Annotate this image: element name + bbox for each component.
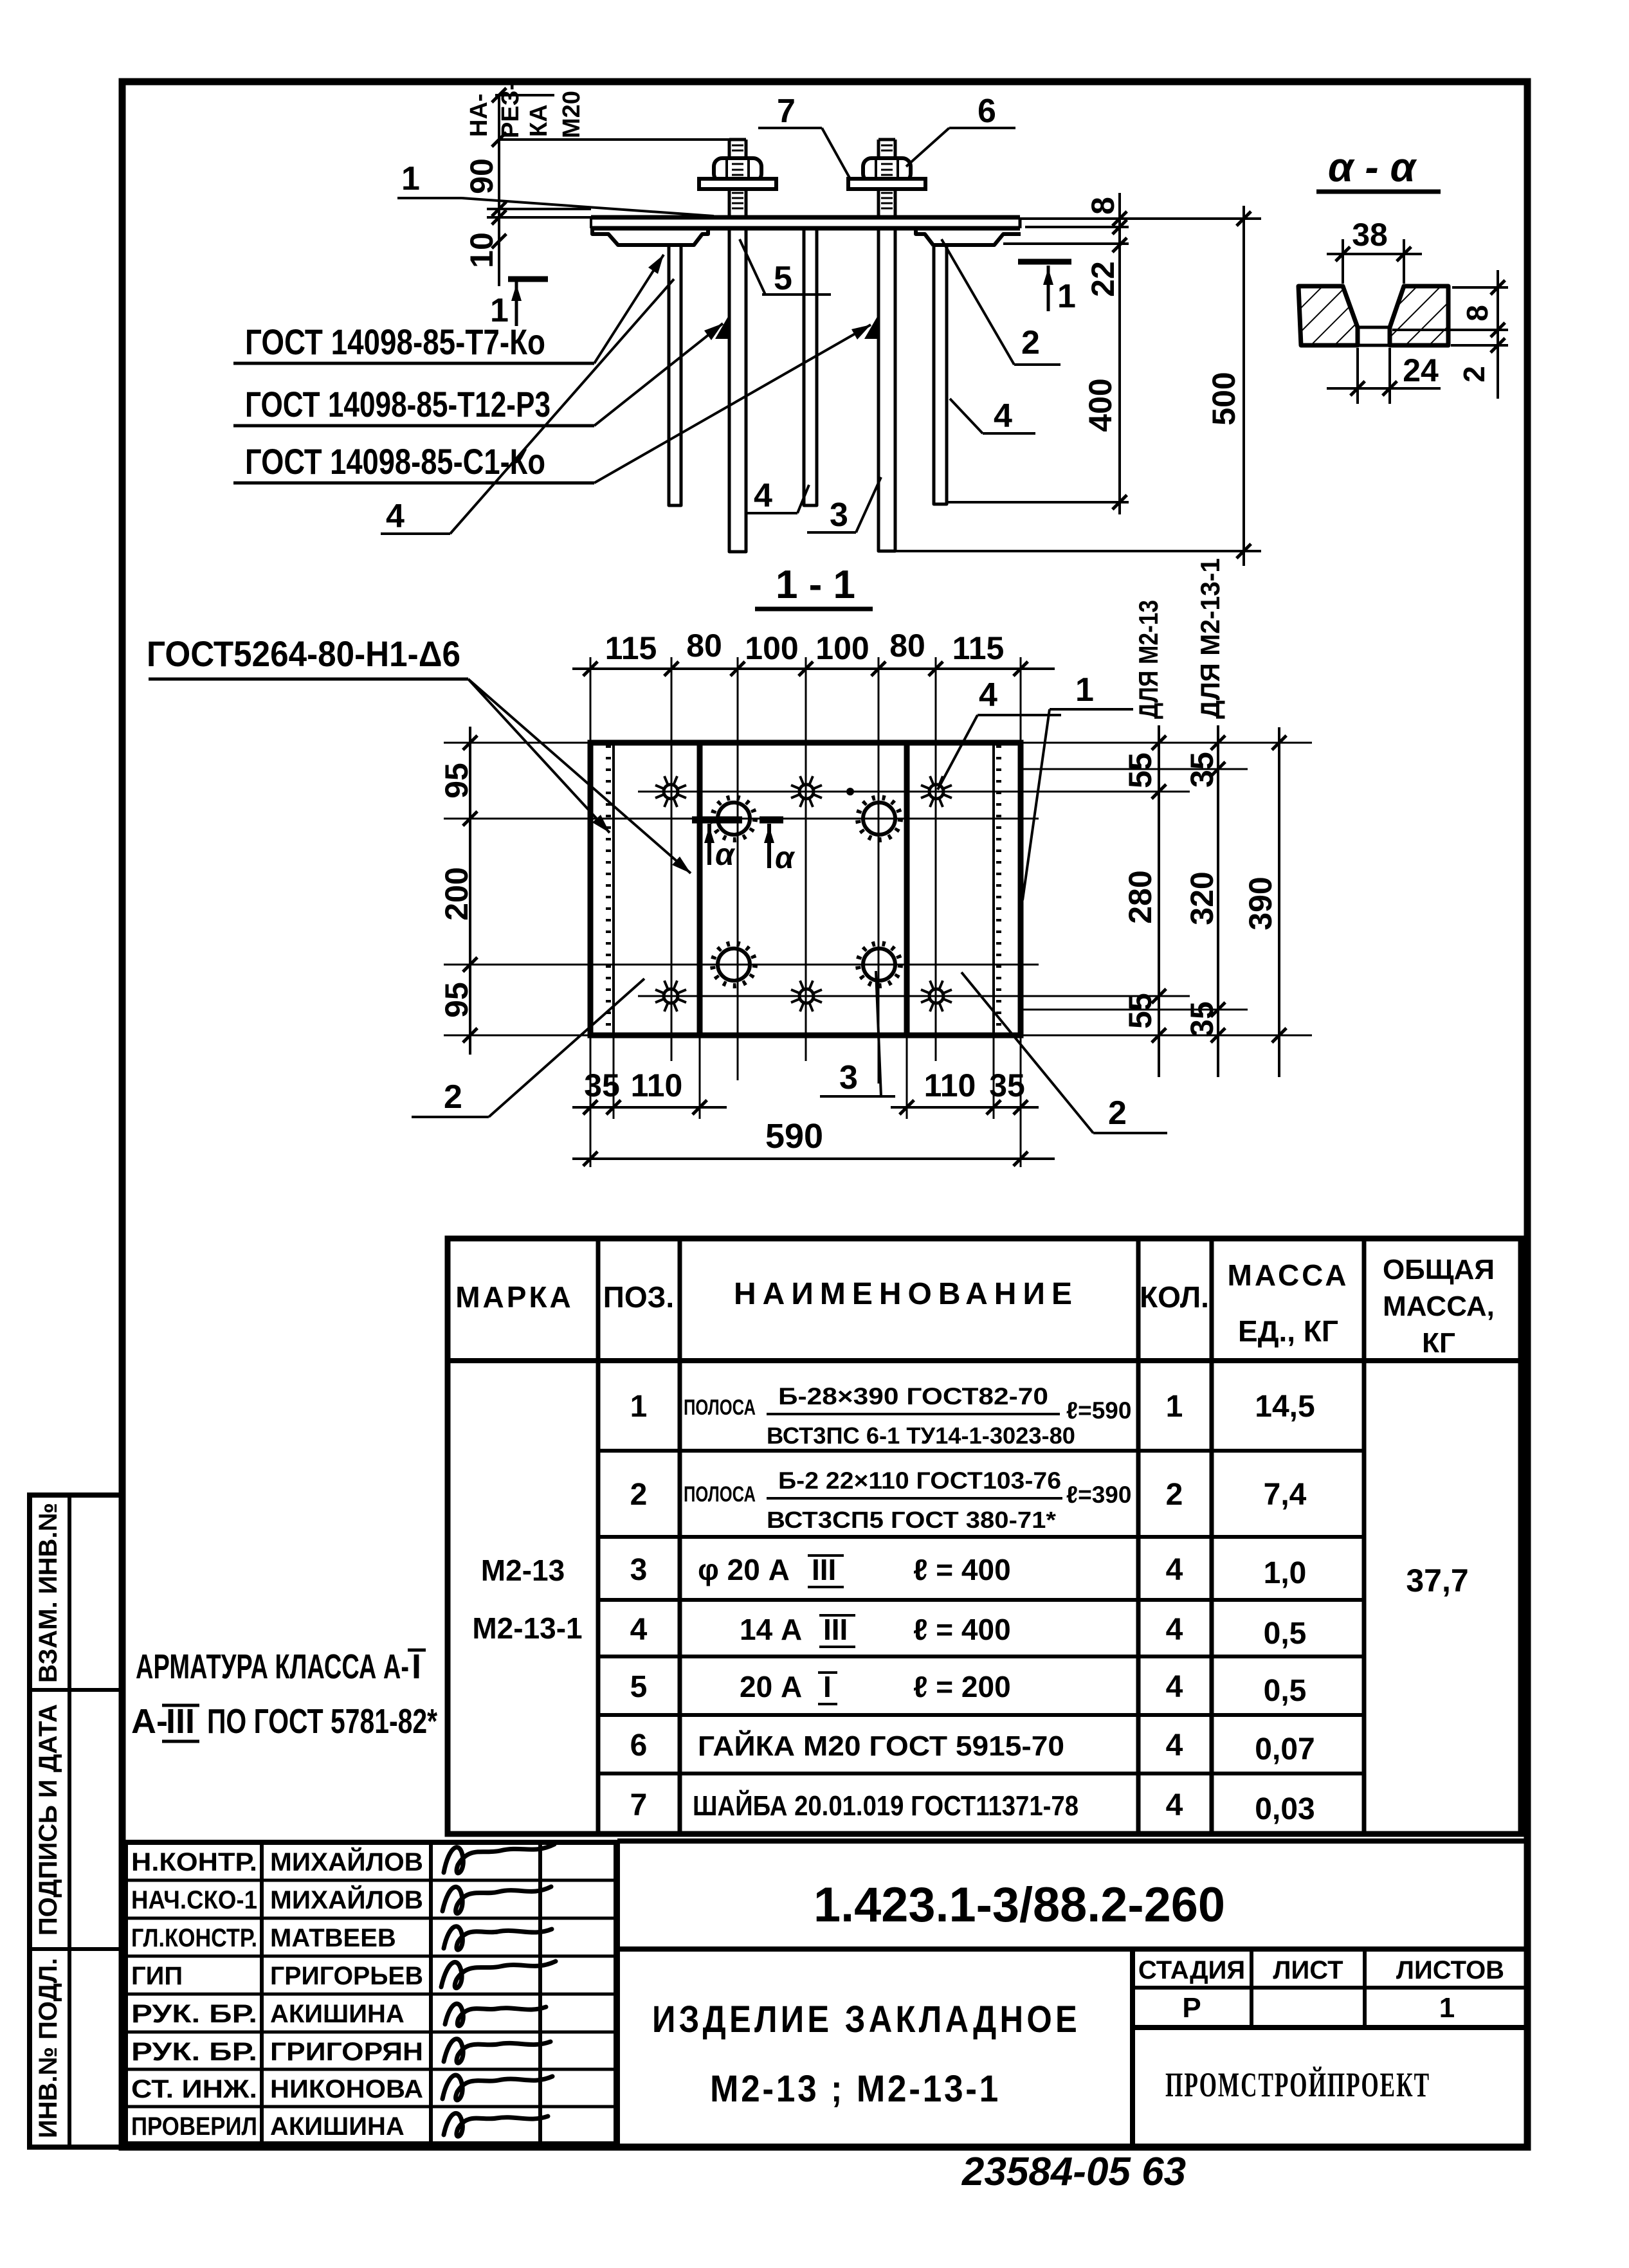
svg-text:35: 35 xyxy=(1184,1001,1220,1037)
anchor rod item4 right xyxy=(934,247,947,504)
right dims 8 / 22 xyxy=(1118,193,1121,289)
section cut alpha marks xyxy=(692,817,742,824)
svg-text:2: 2 xyxy=(1457,366,1491,383)
svg-text:7: 7 xyxy=(630,1788,648,1822)
svg-text:23584-05 63: 23584-05 63 xyxy=(961,2150,1186,2194)
plan plate outline xyxy=(590,743,1021,1035)
svg-text:5: 5 xyxy=(774,260,792,297)
svg-text:1 - 1: 1 - 1 xyxy=(776,563,855,607)
svg-text:ПОЛОСА: ПОЛОСА xyxy=(684,1395,756,1420)
svg-text:ℓ=590: ℓ=590 xyxy=(1066,1397,1131,1424)
svg-text:3: 3 xyxy=(830,496,848,534)
right dim chain 55 280 55 xyxy=(1158,725,1160,1077)
svg-text:4: 4 xyxy=(1166,1670,1183,1704)
plan lower plate edges thick xyxy=(697,743,703,1035)
svg-text:ГОСТ 14098-85-Т12-Р3: ГОСТ 14098-85-Т12-Р3 xyxy=(245,384,551,424)
svg-text:55: 55 xyxy=(1122,993,1158,1029)
signature table xyxy=(125,1842,616,2144)
bottom dim 590 xyxy=(572,1157,1055,1160)
svg-text:4: 4 xyxy=(979,676,997,714)
svg-text:Б-2 22×110 ГОСТ103-76: Б-2 22×110 ГОСТ103-76 xyxy=(778,1467,1061,1494)
svg-text:ЛИСТОВ: ЛИСТОВ xyxy=(1396,1956,1504,1984)
svg-text:35: 35 xyxy=(989,1067,1025,1103)
washer item7 xyxy=(699,179,776,189)
plan column centerlines xyxy=(671,657,673,1061)
svg-text:6: 6 xyxy=(630,1728,648,1763)
svg-text:КГ: КГ xyxy=(1422,1327,1455,1359)
weld triangle on right bolt xyxy=(864,314,878,339)
svg-text:НАИМЕНОВАНИЕ: НАИМЕНОВАНИЕ xyxy=(734,1277,1078,1311)
svg-text:ИЗДЕЛИЕ ЗАКЛАДНОЕ: ИЗДЕЛИЕ ЗАКЛАДНОЕ xyxy=(652,1999,1080,2040)
svg-text:200: 200 xyxy=(439,867,475,920)
right dim 390 xyxy=(1278,727,1280,1077)
svg-text:280: 280 xyxy=(1122,870,1158,923)
svg-text:М20: М20 xyxy=(558,91,585,138)
svg-text:7: 7 xyxy=(777,93,796,130)
drawing frame border xyxy=(122,82,1527,2147)
svg-text:ПРОВЕРИЛ: ПРОВЕРИЛ xyxy=(131,2112,257,2141)
svg-text:2: 2 xyxy=(1166,1478,1183,1512)
plan weld serrated line right xyxy=(992,745,995,1033)
svg-text:95: 95 xyxy=(439,982,475,1018)
svg-text:РЕЗ-: РЕЗ- xyxy=(497,82,524,138)
plan extension verticals below xyxy=(590,1035,592,1167)
dim 8 right xyxy=(1452,286,1508,289)
svg-text:4: 4 xyxy=(1166,1788,1183,1822)
plate ref thin lines left xyxy=(487,208,591,210)
svg-text:37,7: 37,7 xyxy=(1406,1563,1468,1599)
svg-text:ВСТ3ПС 6-1 ТУ14-1-3023-80: ВСТ3ПС 6-1 ТУ14-1-3023-80 xyxy=(767,1422,1075,1449)
parts table header bottom xyxy=(448,1358,1521,1363)
svg-text:1: 1 xyxy=(1075,671,1094,709)
svg-text:1: 1 xyxy=(1057,278,1076,315)
svg-text:1: 1 xyxy=(1166,1390,1183,1424)
svg-text:ГОСТ 14098-85-Т7-Ко: ГОСТ 14098-85-Т7-Ко xyxy=(245,322,545,362)
svg-text:8: 8 xyxy=(1085,197,1121,215)
svg-text:РУК. БР.: РУК. БР. xyxy=(131,2038,257,2066)
svg-text:0,03: 0,03 xyxy=(1255,1792,1315,1826)
svg-text:80: 80 xyxy=(889,628,925,664)
svg-text:4: 4 xyxy=(754,477,772,514)
svg-text:2: 2 xyxy=(1108,1094,1127,1132)
svg-text:55: 55 xyxy=(1122,752,1158,788)
dim 2 right xyxy=(1451,344,1508,347)
svg-text:Н.КОНТР.: Н.КОНТР. xyxy=(131,1848,257,1876)
svg-text:7,4: 7,4 xyxy=(1264,1478,1307,1512)
anchor bolt item3 right rod xyxy=(878,230,895,551)
svg-text:ГИП: ГИП xyxy=(131,1962,183,1990)
svg-text:МИХАЙЛОВ: МИХАЙЛОВ xyxy=(270,1847,423,1876)
svg-text:1: 1 xyxy=(401,160,420,197)
svg-text:6: 6 xyxy=(978,93,996,130)
svg-text:φ 20 А: φ 20 А xyxy=(698,1553,790,1586)
svg-text:ПОЛОСА: ПОЛОСА xyxy=(684,1482,756,1507)
svg-text:4: 4 xyxy=(1166,1613,1183,1647)
rod item5 middle xyxy=(804,230,817,505)
svg-text:1.423.1-3/88.2-260: 1.423.1-3/88.2-260 xyxy=(814,1878,1225,1932)
dim 500 xyxy=(1242,206,1245,566)
plan small rod marks item4 xyxy=(664,785,678,799)
plan big bolt holes with weld marks xyxy=(718,803,750,835)
svg-text:8: 8 xyxy=(1461,305,1494,322)
svg-text:95: 95 xyxy=(439,763,475,799)
svg-text:4: 4 xyxy=(994,397,1012,435)
svg-text:590: 590 xyxy=(765,1117,823,1156)
svg-text:I: I xyxy=(823,1670,832,1703)
nut item6 xyxy=(714,158,761,182)
svg-text:100: 100 xyxy=(815,630,869,666)
nut item6 xyxy=(863,158,911,182)
svg-text:ИНВ.№ ПОДЛ.: ИНВ.№ ПОДЛ. xyxy=(34,1958,62,2138)
svg-text:ℓ = 400: ℓ = 400 xyxy=(913,1613,1011,1646)
svg-text:α - α: α - α xyxy=(1328,144,1417,190)
bolt shaft threaded above plate cx=1147 xyxy=(728,140,731,217)
svg-text:115: 115 xyxy=(605,630,657,666)
svg-text:НА-: НА- xyxy=(466,93,493,137)
svg-text:СТАДИЯ: СТАДИЯ xyxy=(1138,1956,1245,1984)
svg-text:НИКОНОВА: НИКОНОВА xyxy=(270,2075,423,2103)
svg-text:ГЛ.КОНСТР.: ГЛ.КОНСТР. xyxy=(131,1924,257,1952)
svg-text:М2-13: М2-13 xyxy=(481,1554,565,1587)
svg-text:35: 35 xyxy=(1184,752,1220,788)
svg-text:4: 4 xyxy=(630,1613,648,1647)
svg-text:14,5: 14,5 xyxy=(1255,1390,1315,1424)
svg-text:4: 4 xyxy=(1166,1728,1183,1763)
svg-text:А-: А- xyxy=(131,1702,168,1741)
svg-text:ГРИГОРЬЕВ: ГРИГОРЬЕВ xyxy=(270,1962,423,1990)
svg-text:10: 10 xyxy=(464,232,500,268)
washer item7 xyxy=(848,179,925,189)
svg-text:ОБЩАЯ: ОБЩАЯ xyxy=(1383,1254,1495,1285)
svg-text:0,5: 0,5 xyxy=(1264,1617,1307,1651)
top dim chain 115 80 100 100 80 115 xyxy=(572,667,1055,670)
dim 24 xyxy=(1356,348,1359,404)
lower plate item2 left (tub) xyxy=(592,228,708,245)
svg-text:90: 90 xyxy=(464,158,500,194)
section cut mark 1 left xyxy=(508,277,548,282)
svg-text:ℓ = 200: ℓ = 200 xyxy=(913,1670,1011,1703)
svg-text:80: 80 xyxy=(686,628,722,664)
svg-text:110: 110 xyxy=(924,1067,976,1103)
left margin strip boxes xyxy=(30,1495,122,2147)
svg-text:3: 3 xyxy=(839,1059,858,1096)
plate item1 section xyxy=(591,215,1020,220)
svg-text:АКИШИНА: АКИШИНА xyxy=(270,2112,405,2141)
weld triangle on left bolt xyxy=(715,314,729,339)
svg-text:110: 110 xyxy=(631,1067,683,1103)
svg-text:390: 390 xyxy=(1242,876,1279,930)
svg-text:ПОДПИСЬ И ДАТА: ПОДПИСЬ И ДАТА xyxy=(34,1704,62,1936)
lower plate item2 right (tub) xyxy=(916,228,1021,245)
svg-text:ВЗАМ. ИНВ.№: ВЗАМ. ИНВ.№ xyxy=(34,1503,62,1683)
bottom dim chain 35 110 / 110 35 xyxy=(572,1106,727,1109)
svg-text:ГРИГОРЯН: ГРИГОРЯН xyxy=(270,2038,423,2066)
svg-text:α: α xyxy=(715,838,736,872)
svg-text:КА: КА xyxy=(525,104,552,137)
svg-text:35: 35 xyxy=(584,1067,620,1103)
svg-text:4: 4 xyxy=(386,498,405,535)
svg-text:20 А: 20 А xyxy=(740,1670,802,1703)
svg-text:МАТВЕЕВ: МАТВЕЕВ xyxy=(270,1924,396,1952)
svg-text:ПРОМСТРОЙПРОЕКТ: ПРОМСТРОЙПРОЕКТ xyxy=(1165,2065,1430,2104)
svg-text:I: I xyxy=(412,1647,421,1686)
title block outline xyxy=(617,1838,1527,1844)
svg-text:Р: Р xyxy=(1182,1992,1201,2024)
plan row lines xyxy=(444,818,1039,820)
anchor bolt item3 left rod xyxy=(729,230,746,552)
svg-text:ПОЗ.: ПОЗ. xyxy=(603,1280,674,1314)
svg-text:115: 115 xyxy=(952,630,1005,666)
parts table row lines xyxy=(598,1449,1364,1453)
svg-text:3: 3 xyxy=(630,1553,648,1587)
svg-text:М2-13 ; М2-13-1: М2-13 ; М2-13-1 xyxy=(710,2068,1001,2110)
svg-text:1: 1 xyxy=(1439,1992,1455,2024)
svg-text:24: 24 xyxy=(1403,352,1439,388)
parts table columns xyxy=(596,1238,601,1834)
svg-text:ГОСТ5264-80-Н1-Δ6: ГОСТ5264-80-Н1-Δ6 xyxy=(147,633,460,674)
svg-text:14 А: 14 А xyxy=(740,1613,802,1646)
svg-text:МАРКА: МАРКА xyxy=(455,1280,574,1314)
plan weld serrated line left xyxy=(612,745,615,1033)
stadia list cells xyxy=(1133,1986,1527,1990)
svg-text:ДЛЯ М2-13: ДЛЯ М2-13 xyxy=(1133,600,1163,719)
svg-text:ВСТ3СП5 ГОСТ 380-71*: ВСТ3СП5 ГОСТ 380-71* xyxy=(767,1507,1056,1533)
svg-text:ЕД., КГ: ЕД., КГ xyxy=(1238,1314,1338,1348)
title text cell xyxy=(1130,1949,1135,2144)
svg-text:АКИШИНА: АКИШИНА xyxy=(270,2000,405,2028)
dim 38 xyxy=(1342,239,1344,284)
svg-text:2: 2 xyxy=(630,1478,648,1512)
svg-text:М2-13-1: М2-13-1 xyxy=(472,1611,582,1645)
svg-text:НАЧ.СКО-1: НАЧ.СКО-1 xyxy=(131,1886,257,1914)
svg-text:100: 100 xyxy=(745,630,798,666)
svg-text:5: 5 xyxy=(630,1670,648,1704)
bottom extension lines of rods xyxy=(947,501,1129,503)
anchor rod item4 left xyxy=(669,247,681,505)
left dim chain 95 200 95 xyxy=(469,727,471,1055)
svg-text:38: 38 xyxy=(1352,217,1388,253)
svg-text:ШАЙБА 20.01.019 ГОСТ11371-78: ШАЙБА 20.01.019 ГОСТ11371-78 xyxy=(693,1789,1078,1822)
svg-text:СТ. ИНЖ.: СТ. ИНЖ. xyxy=(131,2075,257,2103)
svg-text:22: 22 xyxy=(1085,261,1121,297)
svg-text:III: III xyxy=(823,1613,848,1646)
svg-text:2: 2 xyxy=(1021,324,1040,361)
svg-text:МАССА,: МАССА, xyxy=(1383,1291,1495,1322)
svg-text:III: III xyxy=(166,1702,195,1741)
parts table frame xyxy=(448,1238,1521,1834)
svg-text:ПО ГОСТ 5781-82*: ПО ГОСТ 5781-82* xyxy=(207,1702,437,1741)
svg-text:ГОСТ 14098-85-С1-Ко: ГОСТ 14098-85-С1-Ко xyxy=(245,441,545,482)
bolt shaft threaded above plate cx=1379 xyxy=(877,140,880,217)
signatures squiggles xyxy=(444,1844,554,1873)
svg-text:1: 1 xyxy=(630,1390,648,1424)
svg-text:АРМАТУРА КЛАССА А-: АРМАТУРА КЛАССА А- xyxy=(136,1647,409,1686)
svg-text:2: 2 xyxy=(444,1078,462,1116)
svg-text:0,07: 0,07 xyxy=(1255,1732,1315,1766)
svg-text:III: III xyxy=(812,1553,836,1586)
svg-text:ℓ = 400: ℓ = 400 xyxy=(913,1553,1011,1586)
section cut mark 1 right xyxy=(1018,259,1071,265)
left dim line 90/10 xyxy=(498,95,500,286)
svg-text:КОЛ.: КОЛ. xyxy=(1140,1280,1209,1314)
plan extension verticals above edges xyxy=(590,657,592,743)
svg-text:РУК. БР.: РУК. БР. xyxy=(131,2000,257,2028)
svg-text:500: 500 xyxy=(1206,372,1242,425)
svg-text:1,0: 1,0 xyxy=(1264,1556,1307,1590)
svg-text:ГАЙКА М20 ГОСТ 5915-70: ГАЙКА М20 ГОСТ 5915-70 xyxy=(698,1729,1064,1762)
svg-text:МИХАЙЛОВ: МИХАЙЛОВ xyxy=(270,1885,423,1914)
svg-text:α: α xyxy=(775,841,796,875)
svg-text:400: 400 xyxy=(1082,378,1118,431)
svg-text:320: 320 xyxy=(1184,871,1220,925)
svg-text:4: 4 xyxy=(1166,1553,1183,1587)
svg-text:Б-28×390 ГОСТ82-70: Б-28×390 ГОСТ82-70 xyxy=(778,1383,1048,1410)
right dim chain 35 320 35 xyxy=(1217,725,1219,1077)
dim 400 xyxy=(1118,289,1121,514)
svg-text:МАССА: МАССА xyxy=(1228,1258,1349,1292)
svg-text:ℓ=390: ℓ=390 xyxy=(1066,1482,1131,1508)
svg-text:ДЛЯ М2-13-1: ДЛЯ М2-13-1 xyxy=(1195,558,1225,719)
plate extension lines right xyxy=(1020,217,1261,220)
svg-text:ЛИСТ: ЛИСТ xyxy=(1273,1956,1343,1984)
svg-text:0,5: 0,5 xyxy=(1264,1674,1307,1708)
